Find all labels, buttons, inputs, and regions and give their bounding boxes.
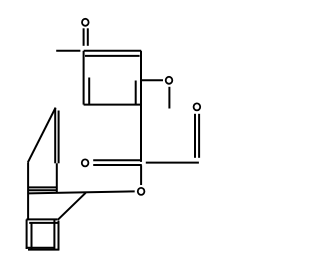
bond O2-methyl xyxy=(168,87,170,109)
bond apex vertical pair right xyxy=(58,111,60,164)
bond methyl-C1 xyxy=(56,50,80,52)
bond ring left inner double xyxy=(88,78,90,105)
bond C3=O4 double line bottom xyxy=(93,164,142,166)
atom O2 (methoxy oxygen) xyxy=(166,77,173,84)
bond C2=O3 double line left xyxy=(194,114,196,158)
bond ring top outer xyxy=(84,50,142,52)
bond C1=O1 double line left xyxy=(83,28,85,46)
bond left vertical V1 xyxy=(27,162,29,220)
bond ring right inner double xyxy=(135,81,137,105)
atom O1 (top ketone oxygen) xyxy=(82,19,89,26)
bond ring bottom edge xyxy=(84,104,140,106)
bond O5 to left chain xyxy=(28,191,134,193)
bond apex vertical pair left xyxy=(54,108,56,163)
bond C-O2 (methoxy) xyxy=(142,79,163,81)
bond vertical single below pair xyxy=(56,163,58,193)
bond ring right edge long vertical xyxy=(140,51,142,162)
bond square top inner xyxy=(29,222,59,224)
bond apex diagonal D1 xyxy=(28,108,56,163)
bond C3=O4 double line top xyxy=(93,159,142,161)
atom O4 (ester carbonyl oxygen) xyxy=(82,159,89,166)
bond C2=O3 double line right xyxy=(198,114,200,158)
bond diagonal D2 to square xyxy=(58,193,86,220)
bond horizontal pair lower xyxy=(29,189,57,191)
bond square left outer vertical xyxy=(26,219,28,249)
bond ring left edge xyxy=(83,51,85,105)
bond C3-O5 xyxy=(140,165,142,185)
bond square left inner vertical xyxy=(31,223,33,249)
bond C1=O1 double line right xyxy=(87,28,89,46)
bond horizontal pair upper xyxy=(29,186,57,188)
bond square right outer vertical xyxy=(58,221,60,250)
atom O3 (right carbonyl oxygen) xyxy=(194,103,201,110)
bond square bottom outer xyxy=(26,247,55,249)
bond square top outer xyxy=(26,218,57,220)
bond square bottom inner xyxy=(28,249,59,251)
bond ester C to right carbonyl C xyxy=(146,162,199,164)
atom O5 (ester bridge oxygen) xyxy=(138,188,145,195)
bond square right inner vertical xyxy=(53,219,55,249)
bond ring top inner xyxy=(85,55,140,57)
